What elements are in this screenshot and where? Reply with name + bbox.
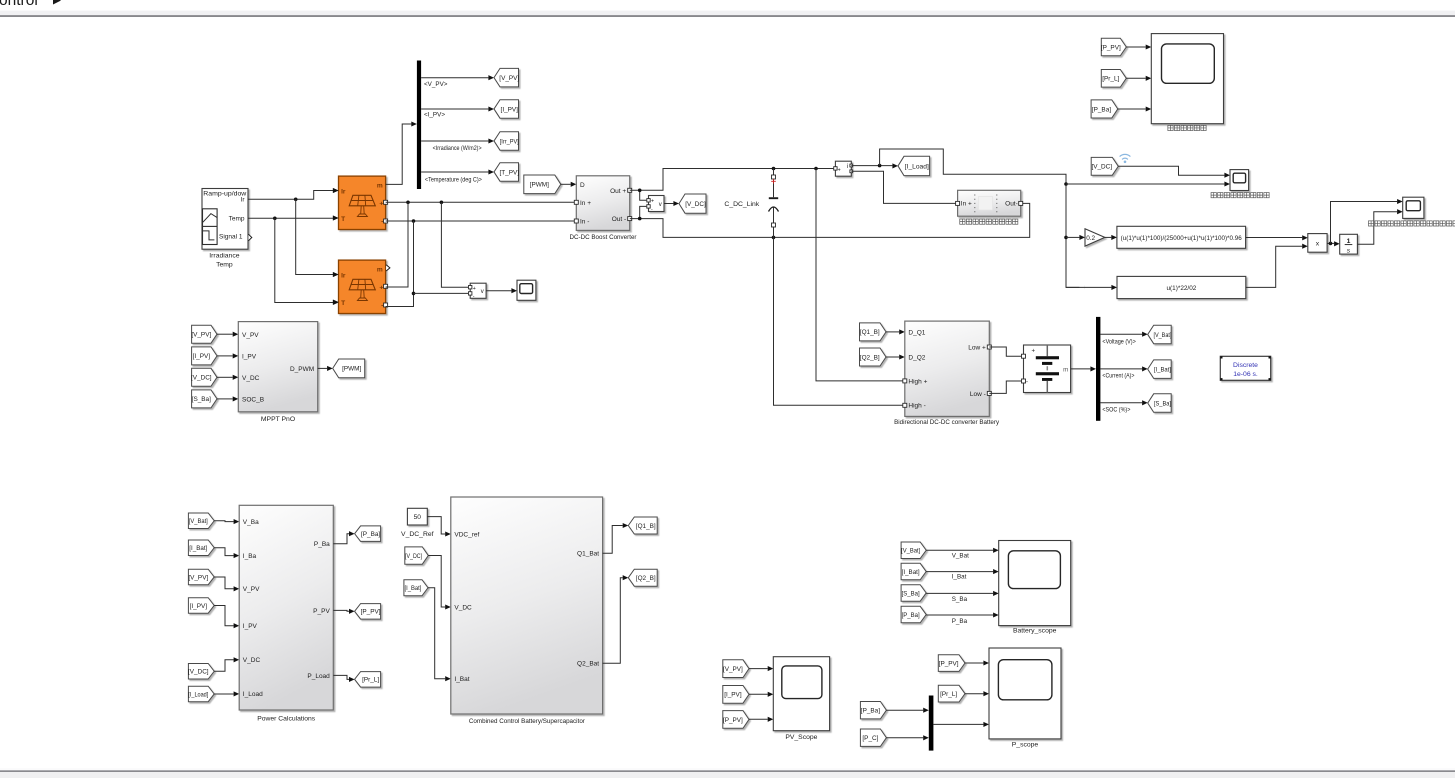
wire fcn2 input <box>1066 285 1117 290</box>
svg-text:+: + <box>1032 349 1036 355</box>
subsystem MPPT PnO <box>238 322 317 412</box>
svg-text:+: + <box>651 199 654 205</box>
svg-text:V_PV: V_PV <box>242 332 259 339</box>
label PV_Scope <box>785 734 817 741</box>
wire pc P_Load out <box>333 675 354 682</box>
wire I_Bat to battery scope <box>926 569 999 574</box>
subsystem DC-DC Boost Converter <box>574 176 631 231</box>
scope energy conversion waveform <box>1151 34 1223 124</box>
wire bus2 out soc <box>1100 400 1147 405</box>
svg-text:[I_Bat]: [I_Bat] <box>189 545 207 552</box>
svg-text:1e-06 s.: 1e-06 s. <box>1233 371 1258 378</box>
svg-text:In +: In + <box>580 200 591 207</box>
svg-text:0.2: 0.2 <box>1086 235 1095 242</box>
svg-text:m: m <box>377 182 383 189</box>
svg-text:<Voltage (V)>: <Voltage (V)> <box>1102 338 1136 345</box>
svg-text:[P_PV]: [P_PV] <box>723 717 743 724</box>
integrator block <box>1340 234 1358 254</box>
svg-text:v: v <box>659 202 662 208</box>
svg-text:[I_PV]: [I_PV] <box>501 106 519 113</box>
label C_DC_Link <box>724 201 759 208</box>
signal label SOC <box>1102 406 1130 413</box>
wireless logging badge <box>1120 154 1131 163</box>
subsystem Combined Control Battery Supercapacitor <box>451 497 603 714</box>
svg-text:[V_DC]: [V_DC] <box>191 375 212 382</box>
wire V_Bat to pc <box>214 519 239 524</box>
wire product to scope3 <box>1331 199 1403 243</box>
wire P_PV to P_scope <box>965 660 989 665</box>
svg-text:[Pr_L]: [Pr_L] <box>940 691 957 698</box>
wire I_Load to pc <box>214 691 239 696</box>
wire V1 to V_DC goto <box>664 201 679 206</box>
wire I_PV to mppt <box>217 353 238 358</box>
wire P_C to mux <box>886 735 928 740</box>
wire Q1_B to converter <box>886 329 905 334</box>
svg-text:<Temperature (deg C)>: <Temperature (deg C)> <box>425 177 482 184</box>
svg-text:<V_PV>: <V_PV> <box>424 81 448 88</box>
svg-text:D: D <box>580 182 585 189</box>
wire voltage tap plus to V2 block <box>441 202 468 287</box>
from tag Q1_B <box>860 323 887 341</box>
svg-text:[P_PV]: [P_PV] <box>1101 44 1121 51</box>
svg-text:ontrol: ontrol <box>0 0 38 9</box>
from tag PWM <box>524 175 561 194</box>
svg-text:Low +: Low + <box>968 344 986 351</box>
battery block <box>1022 345 1071 393</box>
svg-text:I_Load: I_Load <box>243 691 263 698</box>
small scope PV voltage <box>517 280 536 300</box>
signal label I_PV <box>424 112 445 119</box>
svg-text:i: i <box>847 164 848 170</box>
wire P_Ba to scope1 <box>1118 106 1152 111</box>
svg-text:V_Ba: V_Ba <box>243 519 259 526</box>
from tag S_Ba mppt <box>192 390 217 408</box>
signal label S_Ba <box>952 596 968 603</box>
goto tag S_Ba <box>1148 394 1172 413</box>
wire V_DC to combined <box>428 556 451 610</box>
label hydrogen production rate and molar flow <box>1368 221 1455 226</box>
wire Ir branch to PV2 <box>296 199 339 277</box>
svg-text:50: 50 <box>414 514 422 521</box>
svg-text:D_Q2: D_Q2 <box>908 355 925 362</box>
wire Temp branch to PV2 <box>275 218 339 305</box>
wire PV2 minus to rail <box>386 221 416 307</box>
wire mppt to PWM goto <box>318 366 333 371</box>
svg-text:P_Ba: P_Ba <box>314 541 330 548</box>
svg-text:m: m <box>1063 366 1068 373</box>
svg-text:[P_PV]: [P_PV] <box>939 660 959 667</box>
svg-text:[V_Bat]: [V_Bat] <box>901 548 920 555</box>
svg-text:T: T <box>341 300 345 307</box>
scope Battery_scope <box>999 541 1071 626</box>
svg-text:V_DC_Ref: V_DC_Ref <box>401 531 434 538</box>
from tag Q2_B <box>860 348 887 366</box>
label Irradiance Temp <box>209 253 239 269</box>
svg-text:x: x <box>1316 241 1320 248</box>
label P_scope <box>1012 742 1039 749</box>
svg-text:In +: In + <box>961 201 972 208</box>
svg-text:[Irr_PV]: [Irr_PV] <box>500 138 519 145</box>
powergui block <box>1220 356 1270 380</box>
svg-text:V_DC: V_DC <box>454 604 472 611</box>
svg-text:[Q2_B]: [Q2_B] <box>636 575 656 582</box>
fcn block u22 <box>1117 276 1246 298</box>
svg-text:[I_PV]: [I_PV] <box>193 353 211 360</box>
current measurement block I1 <box>834 161 853 176</box>
svg-text:<Irradiance (W/m2)>: <Irradiance (W/m2)> <box>433 145 482 152</box>
from tag P_PV ps <box>938 655 965 672</box>
PV array block 1 <box>333 176 388 229</box>
svg-text:[Q1_B]: [Q1_B] <box>636 523 656 530</box>
svg-text:[V_DC]: [V_DC] <box>405 553 422 560</box>
svg-text:[PWM]: [PWM] <box>342 366 361 373</box>
from tag P_PV top <box>1101 38 1126 56</box>
goto tag I_Bat <box>1148 360 1172 379</box>
from tag I_Bat pc <box>188 540 214 556</box>
bus selector 2 bar <box>1096 317 1100 421</box>
svg-text:V_PV: V_PV <box>243 586 260 593</box>
wire voltage tap minus to V2 block <box>414 292 469 294</box>
svg-text:[V_Bat]: [V_Bat] <box>1153 332 1171 339</box>
wire bus2 out current <box>1100 366 1147 371</box>
gain 0.2 <box>1085 229 1105 246</box>
svg-text:[T_PV]: [T_PV] <box>499 169 519 176</box>
status bar bottom <box>0 768 1455 778</box>
svg-text:[Pr_L]: [Pr_L] <box>1102 76 1119 83</box>
svg-text:[Q1_B]: [Q1_B] <box>860 329 880 336</box>
wire bottom rail to High- <box>774 237 903 405</box>
svg-text:[V_DC]: [V_DC] <box>685 201 706 208</box>
wire S_Ba to mppt <box>217 396 238 401</box>
wire I_Bat to combined <box>428 588 451 682</box>
svg-text:s: s <box>1347 248 1351 255</box>
from tag I_Bat combined <box>404 580 428 596</box>
svg-text:Q1_Bat: Q1_Bat <box>577 551 599 558</box>
wire Q2_Bat out <box>603 575 629 663</box>
wire V_DC to mppt <box>217 375 238 380</box>
svg-text:Ir: Ir <box>341 188 346 195</box>
scope hydrogen rate <box>1403 197 1424 218</box>
svg-text:[I_PV]: [I_PV] <box>724 692 742 699</box>
wire P_PV to scope1 <box>1126 44 1151 49</box>
svg-text:P_scope: P_scope <box>1012 742 1039 749</box>
signal label P_Ba <box>952 618 968 625</box>
wire boost Out+ to V1 plus <box>640 190 647 200</box>
wire Q2_B to converter <box>886 354 905 359</box>
wire gain to fcn1 <box>1105 235 1117 240</box>
from tag V_PV mppt <box>191 325 217 343</box>
wire Pr_L to P_scope <box>965 691 989 696</box>
goto tag P_PV pc <box>355 604 381 620</box>
svg-text:[Pr_L]: [Pr_L] <box>362 677 379 684</box>
svg-text:High -: High - <box>908 403 925 410</box>
svg-text:[I_Bat]: [I_Bat] <box>902 569 920 576</box>
svg-text:[V_PV]: [V_PV] <box>188 574 208 581</box>
wire Ir to PV1 <box>248 188 339 201</box>
svg-text:Temp: Temp <box>229 216 245 223</box>
svg-text:V_DC: V_DC <box>242 375 260 382</box>
svg-text:V_Bat: V_Bat <box>952 553 969 560</box>
from tag Pr_L ps <box>938 685 965 702</box>
wire P_Ba to battery scope <box>926 612 999 617</box>
wire V_PV to mppt <box>217 332 238 337</box>
label DC-DC Boost Converter <box>570 234 638 241</box>
svg-text:<I_PV>: <I_PV> <box>424 112 445 119</box>
svg-text:[V_PV]: [V_PV] <box>723 666 743 673</box>
from tag V_PV pc <box>188 569 214 585</box>
svg-text:+: + <box>379 200 383 207</box>
wire boost Out- to V1 minus <box>640 206 647 218</box>
svg-text:[S_Ba]: [S_Ba] <box>192 396 211 403</box>
wire Temp to PV1 <box>248 215 339 220</box>
wire V_PV to pc <box>214 577 239 591</box>
from tag I_Load pc <box>188 686 214 702</box>
svg-text:v: v <box>481 289 484 295</box>
svg-text:[P_PV]: [P_PV] <box>361 609 381 616</box>
wire bus out Irr_PV <box>421 138 494 143</box>
svg-text:[P_Ba]: [P_Ba] <box>861 708 880 715</box>
from tag V_DC wireless <box>1091 157 1118 175</box>
from tag V_DC mppt <box>191 368 217 386</box>
svg-text:[V_Bat]: [V_Bat] <box>189 518 208 525</box>
svg-text:PV_Scope: PV_Scope <box>785 734 817 741</box>
label Power Calculations <box>257 716 316 723</box>
from tag P_Ba bs <box>901 606 926 623</box>
label electrolyzer model <box>960 219 1018 224</box>
svg-text:[I_Bat]: [I_Bat] <box>404 585 421 592</box>
svg-text:[PWM]: [PWM] <box>530 182 549 189</box>
svg-text:-: - <box>1026 380 1028 386</box>
svg-text:-: - <box>381 219 383 226</box>
signal label I_Bat <box>952 574 967 581</box>
svg-text:[V_DC]: [V_DC] <box>1091 164 1112 171</box>
PV array block 2 <box>333 260 390 313</box>
svg-text:C_DC_Link: C_DC_Link <box>724 201 759 208</box>
svg-text:<Current (A)>: <Current (A)> <box>1102 372 1134 379</box>
svg-text:P_Ba: P_Ba <box>952 618 968 625</box>
svg-text:DC-DC Boost Converter: DC-DC Boost Converter <box>570 234 638 241</box>
svg-text:[V_PV]: [V_PV] <box>499 75 519 82</box>
wire PWM to boost D <box>561 182 577 187</box>
signal label Voltage V <box>1102 338 1136 345</box>
goto tag V_PV <box>494 68 519 87</box>
from tag P_Ba ps <box>860 702 886 719</box>
signal label V_PV <box>424 81 448 88</box>
svg-text:Out +: Out + <box>610 188 626 195</box>
wire V_Bat to battery scope <box>926 548 999 553</box>
svg-text:[P_Ba]: [P_Ba] <box>361 531 380 538</box>
wire Pr_L to scope1 <box>1126 76 1151 81</box>
wire fcn1 to product <box>1246 235 1308 240</box>
svg-text:[S_Ba]: [S_Ba] <box>1154 400 1171 407</box>
svg-text:Combined Control Battery/Super: Combined Control Battery/Supercapacitor <box>469 718 586 725</box>
label energy conversion waveform <box>1168 125 1206 130</box>
svg-text:-: - <box>651 206 653 212</box>
wire current signal to I_Load <box>851 163 898 168</box>
svg-text:I_Bat: I_Bat <box>952 574 967 581</box>
goto tag PWM <box>333 359 365 378</box>
svg-text:<SOC (%)>: <SOC (%)> <box>1102 406 1130 413</box>
goto tag T_PV <box>494 163 519 182</box>
svg-text:VDC_ref: VDC_ref <box>454 531 479 538</box>
wire I_PV to pc <box>214 606 239 629</box>
goto tag I_Load <box>898 156 930 175</box>
scope P_scope <box>989 648 1061 739</box>
voltage measurement block V1 <box>647 196 664 213</box>
wire V2 to small scope <box>486 288 517 293</box>
from tag I_PV scope <box>723 686 749 704</box>
from tag V_Bat bs <box>901 542 926 559</box>
svg-text:Battery_scope: Battery_scope <box>1013 628 1057 635</box>
wire pc P_PV out <box>333 609 354 614</box>
wire bus out T_PV <box>421 169 494 174</box>
wire bus out V_PV <box>421 75 494 80</box>
from tag V_DC pc <box>188 664 214 680</box>
svg-text:Irradiance: Irradiance <box>209 253 239 260</box>
toolbar strip <box>0 11 1455 17</box>
svg-text:V_DC: V_DC <box>243 657 261 664</box>
wire S_Ba to battery scope <box>926 591 999 596</box>
wire Q1_Bat out <box>603 523 629 553</box>
from tag P_C ps <box>860 729 886 746</box>
wire V_PV to PV_Scope <box>749 666 773 671</box>
svg-text:-: - <box>473 293 475 299</box>
scope electrolyzer voltage current waveform <box>1230 170 1249 191</box>
subsystem Power Calculations <box>239 505 333 710</box>
goto tag Q1_B combined <box>628 517 657 534</box>
svg-text:T: T <box>341 216 345 223</box>
svg-text:[S_Ba]: [S_Ba] <box>902 590 920 597</box>
svg-text:High +: High + <box>908 378 927 385</box>
wire current signal to electrolyzer scope <box>1066 181 1230 186</box>
svg-text:P_Load: P_Load <box>307 673 330 680</box>
svg-text:S_Ba: S_Ba <box>952 596 968 603</box>
svg-text:I_PV: I_PV <box>242 354 257 361</box>
wire top rail to High+ <box>816 169 903 381</box>
goto tag V_Bat <box>1148 325 1172 344</box>
signal builder block Irradiance Temp <box>202 189 252 250</box>
mux bar P_scope <box>929 696 934 751</box>
wire pc P_Ba out <box>333 531 354 544</box>
svg-text:Low -: Low - <box>970 391 986 398</box>
signal label V_Bat <box>952 553 969 560</box>
from tag S_Ba bs <box>901 585 926 602</box>
wire current signal to gain <box>1066 235 1085 240</box>
wire PV1 m to bus selector <box>386 121 417 184</box>
goto tag Pr_L pc <box>355 672 381 688</box>
svg-text:[I_Load]: [I_Load] <box>905 163 929 170</box>
label Combined Control Battery Supercapacitor <box>469 718 586 725</box>
wire 50 to combined <box>427 517 451 537</box>
svg-text:SOC_B: SOC_B <box>242 397 264 404</box>
svg-text:u(1)*22/02: u(1)*22/02 <box>1166 285 1196 292</box>
svg-text:[V_PV]: [V_PV] <box>191 332 211 339</box>
svg-text:I_PV: I_PV <box>243 623 258 630</box>
svg-text:D_PWM: D_PWM <box>290 366 314 373</box>
wire V_DC to pc <box>214 657 239 671</box>
signal label Current A <box>1102 372 1134 379</box>
wire Low+ to battery <box>989 347 1021 356</box>
from tag V_DC combined <box>405 547 429 564</box>
goto tag I_PV <box>494 100 519 119</box>
svg-text:[I_PV]: [I_PV] <box>190 603 208 610</box>
label electrolyzer voltage current waveform <box>1211 193 1269 198</box>
goto tag Q2_B combined <box>628 569 657 586</box>
wire bus out I_PV <box>421 106 494 111</box>
label V_DC_Ref <box>401 531 434 538</box>
signal label Irradiance <box>433 145 482 152</box>
from tag I_PV pc <box>188 598 214 614</box>
svg-text:Out-: Out- <box>1005 201 1018 208</box>
wire boost Out+ to top rail <box>630 167 834 192</box>
svg-text:Bidirectional DC-DC converter: Bidirectional DC-DC converter Battery <box>894 419 1000 426</box>
wire boost Out- to bottom rail <box>630 203 1030 239</box>
svg-text:+: + <box>379 284 383 291</box>
svg-text:MPPT PnO: MPPT PnO <box>261 416 295 423</box>
capacitor C_DC_Link <box>769 169 779 238</box>
subsystem electrolyzer parallel equivalent model <box>956 190 1023 216</box>
wire I_PV to PV_Scope <box>749 692 773 697</box>
voltage measurement block V2 <box>469 283 487 299</box>
svg-text:-: - <box>381 303 383 310</box>
wire PV plus rail to boost In+ <box>386 201 575 205</box>
svg-text:[I_Load]: [I_Load] <box>188 691 208 698</box>
svg-text:I_Bat: I_Bat <box>454 676 469 683</box>
from tag V_PV scope <box>723 660 749 678</box>
wire V_DC to scope2 <box>1118 166 1230 177</box>
wire integrator to scope3 <box>1357 209 1402 244</box>
wire I_Bat to pc <box>214 548 239 558</box>
svg-text:[P_Ba]: [P_Ba] <box>902 612 920 619</box>
svg-text:Out -: Out - <box>612 216 626 223</box>
svg-text:Temp: Temp <box>216 261 233 268</box>
label Bidirectional DC-DC converter Battery <box>894 419 1000 426</box>
from tag I_Bat bs <box>901 563 926 580</box>
svg-text:(u(1)*u(1)*100)/(25000+u(1)*u(: (u(1)*u(1)*100)/(25000+u(1)*u(1)*100)*0.… <box>1121 235 1243 242</box>
fcn block efficiency <box>1117 226 1246 248</box>
svg-text:[Q2_B]: [Q2_B] <box>860 354 880 361</box>
svg-text:+: + <box>473 286 476 292</box>
from tag P_Ba top <box>1091 100 1118 118</box>
wire Low- to battery <box>989 381 1021 393</box>
svg-text:Discrete: Discrete <box>1233 362 1258 369</box>
toolbar breadcrumb text (cut off at top) <box>0 0 61 9</box>
subsystem Bidirectional DC-DC converter Battery <box>903 321 992 416</box>
wire mux to P_scope <box>933 722 989 727</box>
wire battery m to bus selector 2 <box>1071 366 1096 371</box>
svg-text:In -: In - <box>580 219 589 226</box>
svg-text:Q2_Bat: Q2_Bat <box>577 661 599 668</box>
svg-text:[V_DC]: [V_DC] <box>188 669 209 676</box>
svg-text:Signal 1: Signal 1 <box>219 234 243 241</box>
svg-text:[P_Ba]: [P_Ba] <box>1092 106 1111 113</box>
svg-text:1: 1 <box>1347 238 1351 245</box>
constant 50 <box>407 508 427 525</box>
label MPPT PnO <box>261 416 295 423</box>
signal label Temperature <box>425 177 482 184</box>
svg-text:Ir: Ir <box>341 272 346 279</box>
wire current signal routing to fcn blocks <box>880 149 1085 290</box>
wire bus2 out voltage <box>1100 332 1147 337</box>
svg-text:I_Ba: I_Ba <box>243 553 257 560</box>
wire PV minus rail to boost In- <box>386 219 575 223</box>
wire fcn2 to product <box>1246 244 1308 288</box>
svg-text:P_PV: P_PV <box>313 608 330 615</box>
from tag P_PV scope <box>723 711 749 729</box>
product block <box>1308 234 1327 253</box>
svg-text:Power Calculations: Power Calculations <box>257 716 316 723</box>
goto tag P_Ba pc <box>355 526 381 542</box>
